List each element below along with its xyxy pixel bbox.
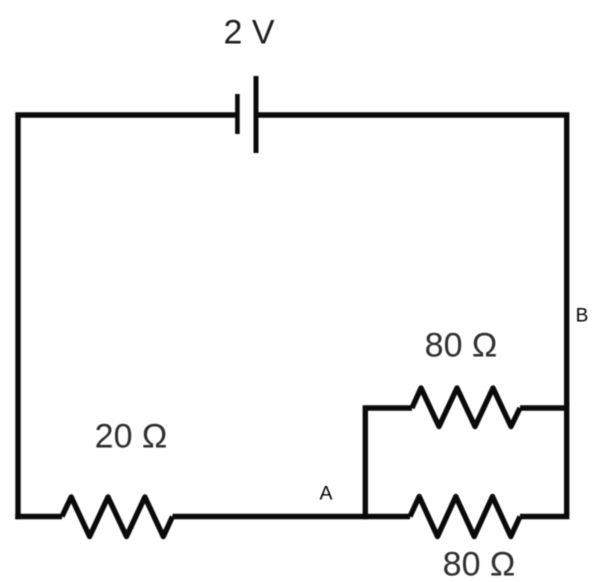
svg-text:B: B <box>576 306 589 327</box>
resistor R2 80 Ω top <box>412 388 520 427</box>
wire bottom-left segment <box>15 514 62 519</box>
resistor R1 20 Ω <box>62 497 173 537</box>
wire top-left segment <box>18 115 236 519</box>
battery V1 positive plate (long bar) <box>254 76 259 153</box>
battery V1 negative plate (short bar) <box>235 94 240 134</box>
wire bottom-middle segment <box>173 514 411 519</box>
battery V1 2 V <box>237 76 256 153</box>
wire bottom-right segment <box>520 402 567 517</box>
wire branch to right <box>520 405 567 410</box>
resistor R3 80 Ω bottom <box>410 497 520 537</box>
svg-text:20 Ω: 20 Ω <box>95 418 168 456</box>
svg-text:2 V: 2 V <box>223 14 274 52</box>
wire branch vertical at node A <box>365 408 412 519</box>
wire top-right segment <box>258 115 567 405</box>
svg-text:80 Ω: 80 Ω <box>443 546 516 582</box>
svg-text:A: A <box>319 483 332 505</box>
svg-text:80 Ω: 80 Ω <box>425 327 498 365</box>
